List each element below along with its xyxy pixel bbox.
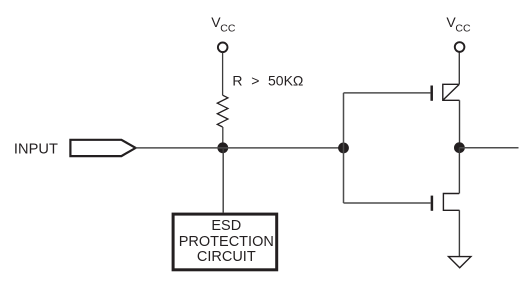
svg-text:R: R bbox=[232, 73, 242, 89]
PMOS drain wire to output node bbox=[459, 100, 461, 147]
ground symbol bbox=[449, 257, 471, 268]
ESD protection circuit box bbox=[173, 214, 277, 270]
resistor R bbox=[217, 95, 228, 127]
wire input node to ESD box bbox=[222, 148, 224, 213]
svg-text:>: > bbox=[251, 73, 259, 89]
PMOS gate lead wire bbox=[344, 92, 431, 94]
node: input/resistor junction dot bbox=[217, 142, 228, 153]
PMOS Q1 gate bar bbox=[430, 86, 433, 101]
svg-text:INPUT: INPUT bbox=[14, 142, 58, 158]
gate bus vertical wire bbox=[343, 93, 345, 203]
output wire bbox=[459, 147, 518, 149]
svg-text:CIRCUIT: CIRCUIT bbox=[197, 249, 256, 265]
svg-text:CC: CC bbox=[455, 22, 471, 34]
svg-text:50KΩ: 50KΩ bbox=[268, 73, 303, 89]
NMOS Q2 gate bar bbox=[431, 196, 434, 211]
svg-text:ESD: ESD bbox=[211, 218, 241, 234]
node: gate junction dot bbox=[338, 143, 349, 154]
NMOS source wire to ground bbox=[458, 210, 460, 256]
NMOS gate lead wire bbox=[344, 202, 431, 204]
main input wire bbox=[136, 147, 344, 149]
wire resistor to input node bbox=[222, 127, 224, 148]
NMOS Q2 body bbox=[443, 194, 459, 211]
Vcc terminal circle (right) bbox=[455, 42, 465, 52]
node: output junction dot bbox=[454, 142, 465, 153]
NMOS drain wire from output node bbox=[458, 148, 460, 194]
PMOS Q1 body bbox=[443, 84, 460, 100]
svg-text:PROTECTION: PROTECTION bbox=[179, 234, 274, 250]
svg-text:CC: CC bbox=[220, 22, 236, 34]
wire Vcc to resistor bbox=[222, 53, 224, 95]
input pin symbol bbox=[70, 140, 135, 156]
PMOS source wire to Vcc bbox=[458, 53, 460, 85]
Vcc terminal circle (left) bbox=[218, 43, 228, 53]
